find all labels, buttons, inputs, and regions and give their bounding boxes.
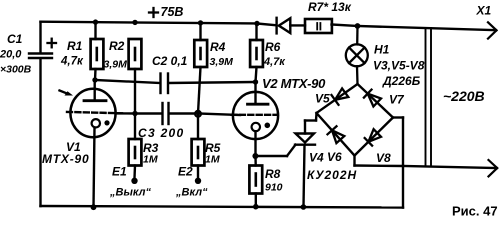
svg-text:Н1: Н1 <box>374 43 390 57</box>
connector X1 lines <box>426 28 432 167</box>
svg-text:3,9М: 3,9М <box>210 56 234 68</box>
svg-text:910: 910 <box>265 182 283 194</box>
svg-text:3,9М: 3,9М <box>104 59 128 71</box>
junction dot R1 top <box>93 19 98 24</box>
svg-text:4,7к: 4,7к <box>263 56 286 68</box>
svg-text:Рис. 47: Рис. 47 <box>452 204 498 219</box>
svg-text:1М: 1М <box>143 154 158 166</box>
resistor R7 <box>305 19 332 33</box>
diode V6 <box>328 126 345 143</box>
svg-text:С1: С1 <box>7 32 23 46</box>
wire junction to V2 grid <box>198 114 240 116</box>
node V2 cathode junction <box>252 153 258 159</box>
node lamp top junction <box>355 23 361 29</box>
V1 starter dot <box>104 120 109 125</box>
V1 cathode <box>92 119 100 127</box>
capacitor C1 <box>29 54 52 59</box>
svg-text:X1: X1 <box>476 4 492 18</box>
diode V3 <box>257 18 305 34</box>
junction dot R4 top <box>198 20 203 25</box>
X1 top arrowhead <box>488 22 497 38</box>
V2 anode bar <box>248 103 269 106</box>
terminal E1 <box>131 178 137 184</box>
svg-text:V7: V7 <box>389 93 405 107</box>
V1 ignitor arrow <box>60 91 74 96</box>
svg-text:С2 0,1: С2 0,1 <box>152 54 188 68</box>
wire grid V1 to C3 <box>135 112 162 114</box>
diode V5 <box>332 88 349 104</box>
svg-text:R1: R1 <box>67 39 83 53</box>
V2 anode lead <box>254 82 256 104</box>
svg-text:R4: R4 <box>210 40 226 54</box>
svg-text:1М: 1М <box>205 154 220 166</box>
svg-text:МТХ-90: МТХ-90 <box>42 152 89 166</box>
resistor R4 <box>194 23 207 114</box>
svg-text:V3,V5-V8: V3,V5-V8 <box>373 59 425 73</box>
V2 cathode lead <box>254 131 256 156</box>
wire bridge arm bottom-right <box>355 118 394 156</box>
V1 anode bar <box>84 99 106 102</box>
V1 cathode lead <box>94 128 95 208</box>
triode V1 envelope <box>70 89 115 137</box>
svg-text:V6: V6 <box>327 150 342 164</box>
svg-text:R8: R8 <box>265 167 281 181</box>
svg-text:75В: 75В <box>161 5 184 19</box>
label C1 plus <box>48 39 57 48</box>
node grid junction V2 <box>195 111 201 117</box>
V1 anode lead <box>93 80 95 101</box>
V1 grid dashed <box>67 112 122 113</box>
resistor R5 <box>192 114 205 179</box>
wire top rail <box>41 22 258 24</box>
wire bridge right corner jog <box>393 118 403 208</box>
resistor R3 <box>129 114 142 179</box>
svg-text:R7* 13к: R7* 13к <box>308 0 352 14</box>
capacitor C3 <box>163 103 169 124</box>
diode V8 <box>365 129 381 145</box>
label +75V <box>149 8 158 17</box>
svg-text:×300В: ×300В <box>0 64 32 76</box>
V2 cathode <box>252 123 260 131</box>
wire left border lower <box>39 59 41 207</box>
node V2 anode junction <box>253 79 258 84</box>
svg-text:4,7к: 4,7к <box>60 56 84 68</box>
junction dot rail right end <box>254 21 259 26</box>
junction dot V4 cathode rail <box>301 204 307 210</box>
node grid junction V1 <box>132 111 137 116</box>
capacitor C2 <box>161 74 169 94</box>
X1 bottom arrowhead <box>489 160 498 176</box>
V2 grid dashed <box>232 114 277 116</box>
junction dot R8 rail <box>253 204 259 210</box>
junction dot V1 cathode rail <box>91 204 97 210</box>
svg-text:С3 200: С3 200 <box>138 126 185 140</box>
resistor R6 <box>250 24 263 83</box>
resistor R2 <box>129 39 142 114</box>
wire bridge arm top-right <box>358 84 394 118</box>
wire C3 to grid junction V2 <box>169 112 198 114</box>
thyristor V4 <box>287 113 317 207</box>
diode V7 <box>364 90 381 107</box>
wire bridge bottom to X1 <box>355 156 404 167</box>
svg-text:Д226Б: Д226Б <box>382 74 421 88</box>
svg-text:V2 МТХ-90: V2 МТХ-90 <box>262 76 326 91</box>
wire bottom rail <box>41 206 404 208</box>
svg-text:КУ202Н: КУ202Н <box>307 168 357 182</box>
svg-text:R6: R6 <box>265 40 281 54</box>
wire bridge arm bottom-left <box>317 113 355 156</box>
resistor R8 <box>249 156 262 207</box>
terminal E2 <box>195 178 201 184</box>
V2 starter dot <box>265 123 271 129</box>
svg-text:20,0: 20,0 <box>0 49 22 61</box>
junction dot R2 top <box>132 20 137 25</box>
wire X1 bottom <box>403 166 496 168</box>
svg-text:V5: V5 <box>315 92 330 106</box>
triode V2 envelope <box>233 92 278 139</box>
svg-text:V8: V8 <box>376 151 391 165</box>
svg-text:V4: V4 <box>309 151 324 165</box>
wire V1 grid to junction <box>117 112 135 114</box>
wire V1 anode to C2 <box>95 80 160 83</box>
lamp H1 <box>346 26 368 84</box>
wire to X1 top arrow <box>358 26 496 30</box>
wire C2 to V2 anode <box>169 82 256 83</box>
node V1 anode junction <box>92 77 97 82</box>
wire V2 cathode to V4 gate <box>256 155 288 157</box>
svg-text:„Выкл“: „Выкл“ <box>109 187 152 199</box>
svg-text:„Вкл“: „Вкл“ <box>175 187 208 199</box>
svg-text:R2: R2 <box>109 39 125 53</box>
wire bridge arm top-left <box>317 84 358 113</box>
svg-text:Е1: Е1 <box>112 165 127 179</box>
svg-text:~220В: ~220В <box>443 88 485 104</box>
resistor R1 <box>91 22 104 80</box>
svg-text:Е2: Е2 <box>178 165 193 179</box>
wire R7 to X1 node <box>332 25 358 27</box>
wire left border <box>39 22 41 53</box>
